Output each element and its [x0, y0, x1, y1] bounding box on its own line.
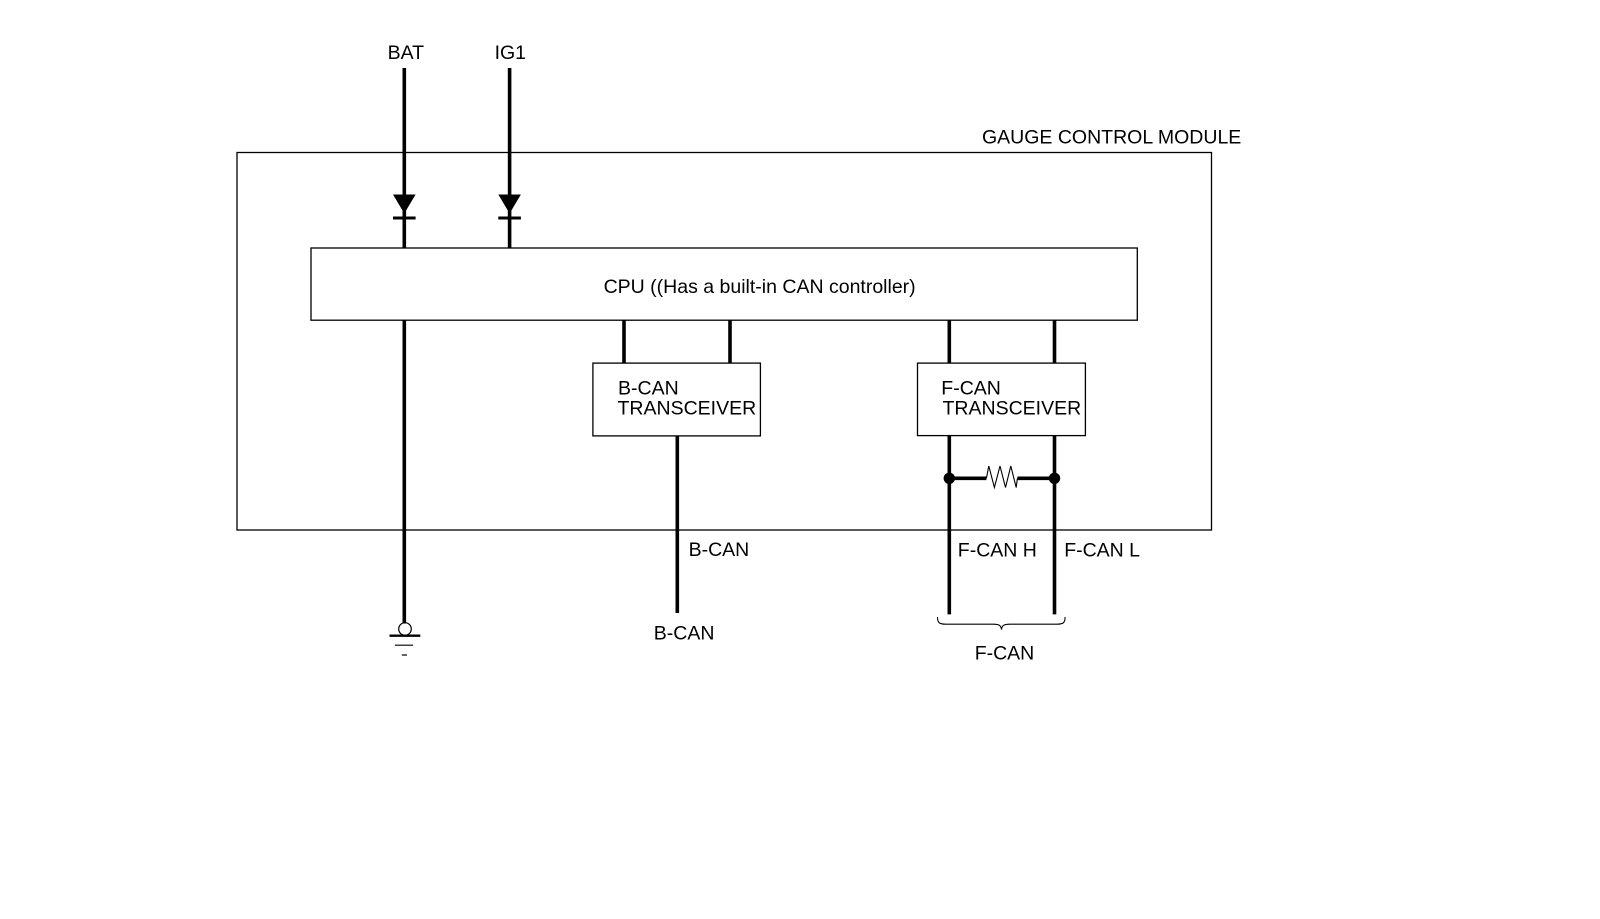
diode on IG1 line — [498, 195, 521, 219]
wire CPU to B-CAN transceiver (left) — [622, 320, 626, 363]
B-CAN transceiver box — [593, 363, 761, 436]
svg-text:F-CAN L: F-CAN L — [1064, 539, 1140, 561]
resistor lead right — [1017, 476, 1054, 480]
svg-text:F-CAN: F-CAN — [941, 377, 1001, 399]
svg-text:TRANSCEIVER: TRANSCEIVER — [618, 397, 757, 419]
wire F-CAN L down — [1053, 436, 1057, 615]
outer module box — [237, 153, 1212, 531]
svg-text:IG1: IG1 — [495, 42, 526, 64]
resistor zigzag — [986, 466, 1017, 488]
resistor lead left — [949, 476, 986, 480]
svg-text:F-CAN H: F-CAN H — [958, 539, 1037, 561]
wire B-CAN out — [675, 436, 679, 613]
wire BAT vertical — [402, 68, 406, 248]
svg-text:BAT: BAT — [388, 42, 425, 64]
junction dot left — [944, 473, 955, 484]
svg-text:F-CAN: F-CAN — [975, 643, 1035, 665]
F-CAN transceiver box — [918, 363, 1086, 436]
svg-text:B-CAN: B-CAN — [654, 623, 715, 645]
svg-text:GAUGE CONTROL MODULE: GAUGE CONTROL MODULE — [982, 127, 1241, 149]
wire CPU to F-CAN transceiver (left) — [947, 320, 951, 363]
diode on BAT line — [393, 195, 416, 219]
wire CPU to F-CAN transceiver (right) — [1053, 320, 1057, 363]
wire CPU to B-CAN transceiver (right) — [728, 320, 732, 363]
svg-text:B-CAN: B-CAN — [618, 377, 679, 399]
junction dot right — [1049, 473, 1060, 484]
wire F-CAN H down — [947, 436, 951, 615]
svg-text:B-CAN: B-CAN — [689, 539, 750, 561]
wire IG1 vertical — [508, 68, 512, 248]
wire BAT to ground — [402, 320, 406, 623]
CPU U1 box — [311, 248, 1137, 320]
svg-text:CPU ((Has a built-in CAN contr: CPU ((Has a built-in CAN controller) — [604, 276, 916, 298]
ground — [390, 623, 421, 655]
brace under F-CAN pair — [938, 617, 1066, 630]
svg-text:TRANSCEIVER: TRANSCEIVER — [943, 397, 1082, 419]
